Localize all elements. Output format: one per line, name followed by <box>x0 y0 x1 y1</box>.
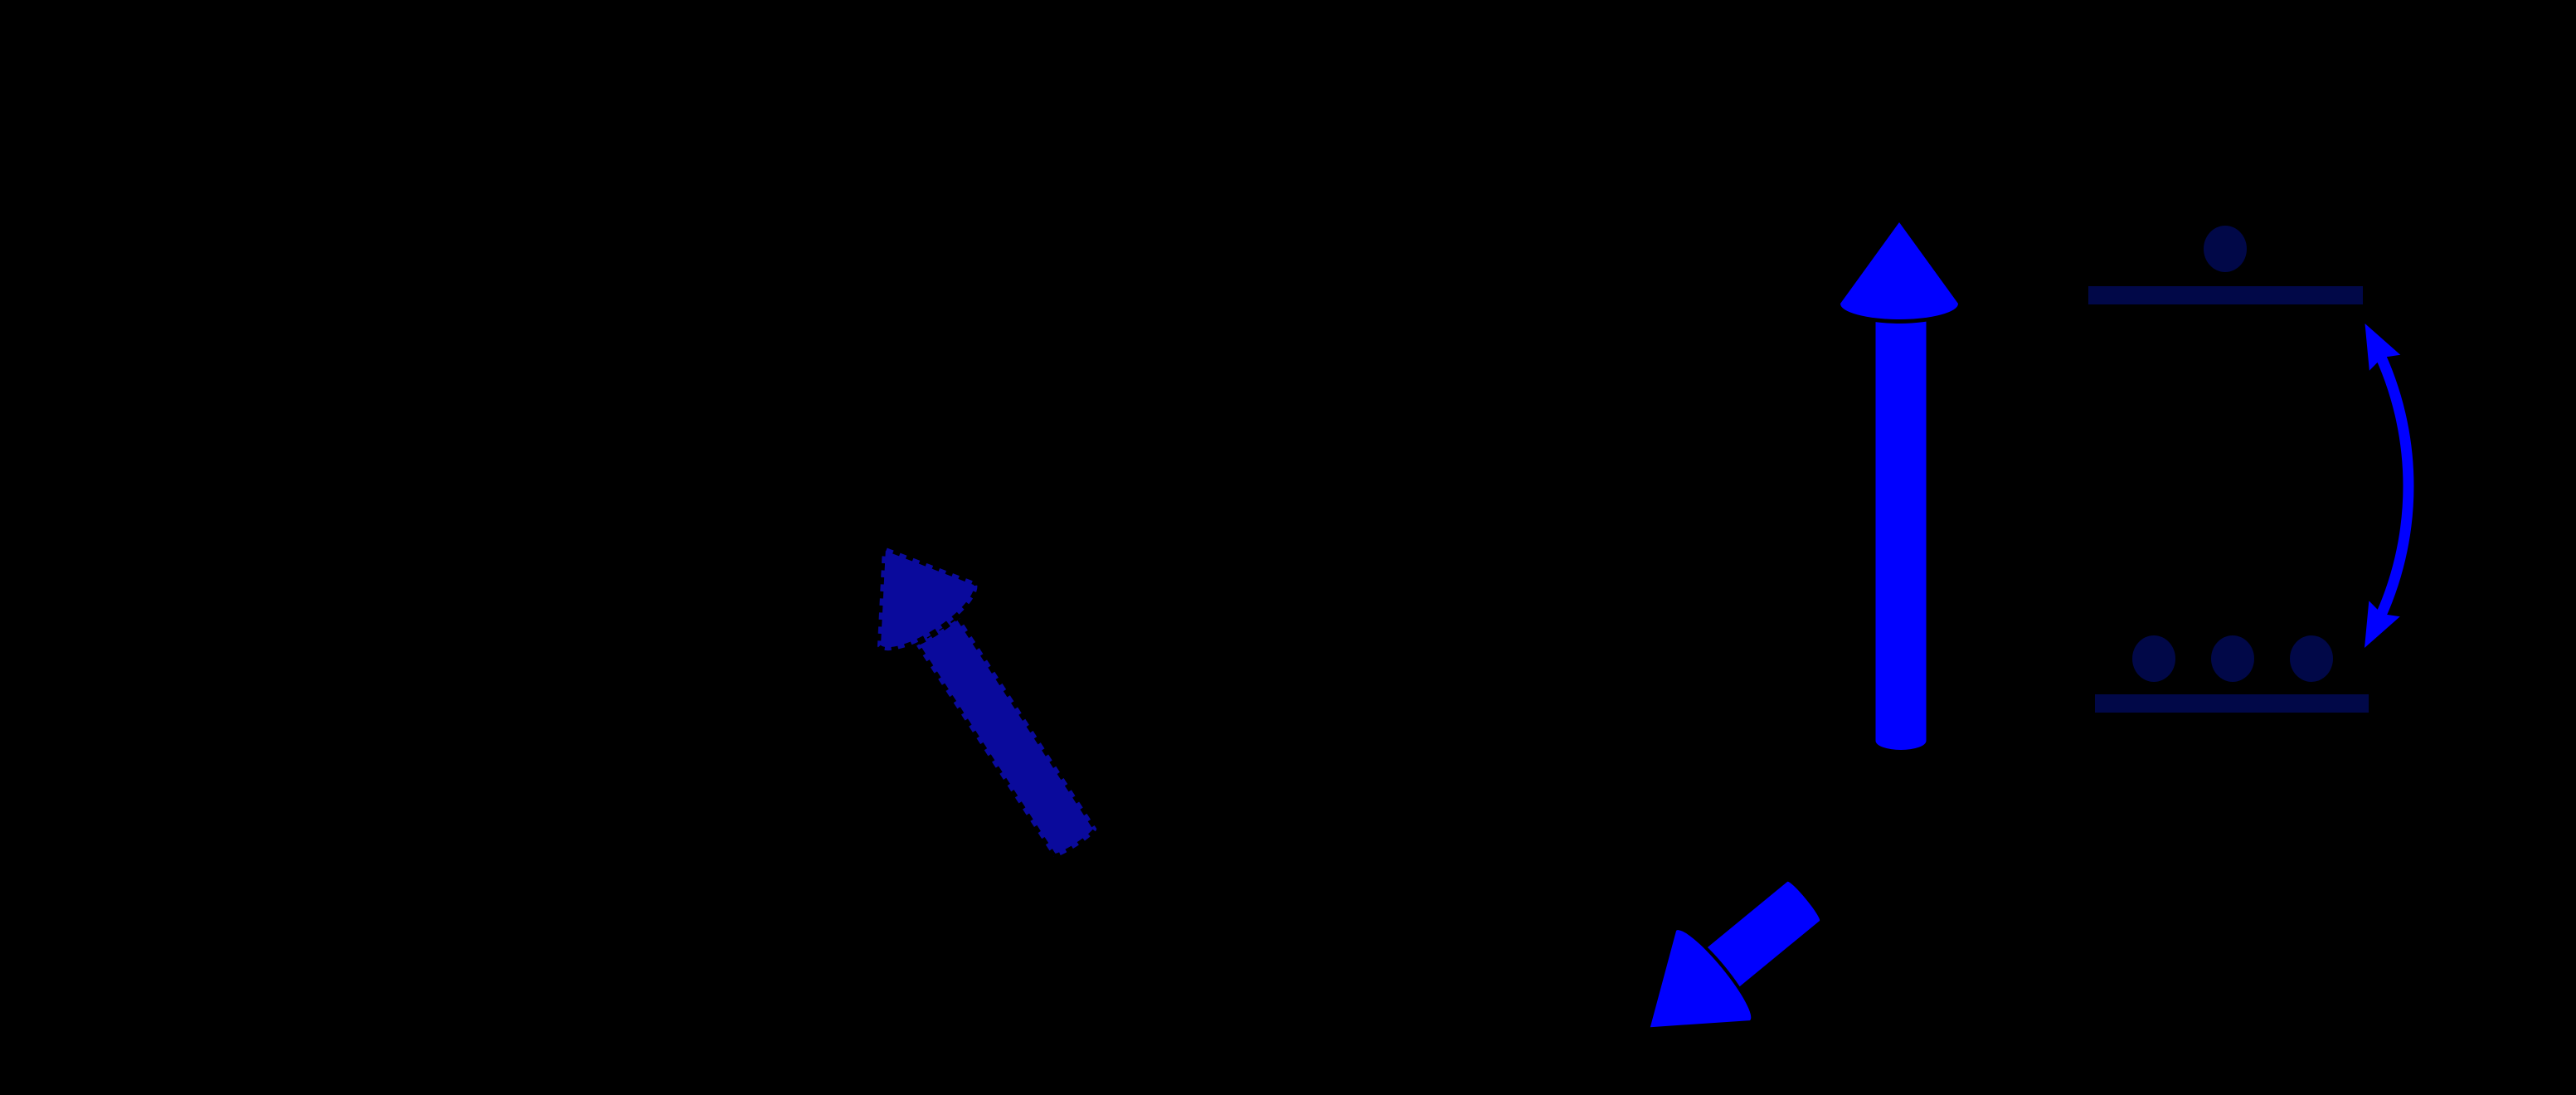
down-left pump arrow (bright blue 3D arrow) <box>1611 851 1845 1075</box>
upper level bar <box>2088 286 2363 304</box>
cylinder shaft of pump arrow <box>1697 879 1822 995</box>
bottom arrowhead of transition arrow <box>2349 601 2399 655</box>
two-level energy diagram (dark navy) <box>2088 226 2369 713</box>
black gap ellipse under cone of pump arrow <box>1662 918 1764 1034</box>
atom dot 3 on lower level <box>2290 635 2333 682</box>
lower level bar <box>2095 694 2369 713</box>
dashed spin arrow S (dark blue 3D arrow with dotted outline, pointing up-left) <box>834 514 1127 878</box>
black gap ellipse under cone of arrow B <box>1836 284 1962 324</box>
top arrowhead of transition arrow <box>2350 315 2400 370</box>
vertical field arrow B (bright blue 3D arrow, pointing up) <box>1836 222 1962 750</box>
atom dot 2 on lower level <box>2211 635 2254 682</box>
shaft of dashed arrow S <box>915 615 1099 859</box>
atom dot 1 on lower level <box>2132 635 2175 682</box>
arc of transition arrow <box>2376 348 2408 625</box>
curved double-headed transition arrow between levels <box>2349 315 2408 655</box>
cone head of arrow B <box>1840 222 1958 319</box>
atom dot on upper level <box>2204 226 2247 272</box>
cone head of pump arrow <box>1613 923 1758 1072</box>
cylinder shaft of arrow B <box>1876 314 1927 750</box>
cone head of dashed arrow S <box>834 514 988 664</box>
